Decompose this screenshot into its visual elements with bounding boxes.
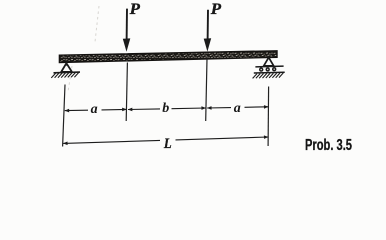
dimension line a (left) — [65, 109, 127, 110]
roller support hatching — [253, 73, 284, 79]
dimension line b — [128, 108, 206, 110]
svg-text:b: b — [162, 101, 169, 116]
beam — [59, 51, 277, 63]
faint scan crease artifact — [68, 6, 99, 92]
pin support (left) — [54, 63, 81, 73]
paper background — [0, 0, 386, 164]
svg-text:a: a — [91, 102, 98, 117]
dimension line L — [63, 137, 268, 143]
svg-text:P: P — [210, 1, 222, 18]
dimension line a (right) — [207, 107, 268, 108]
extension line right — [267, 87, 270, 147]
svg-text:Prob. 3.5: Prob. 3.5 — [305, 137, 352, 154]
svg-text:a: a — [234, 101, 241, 116]
svg-text:P: P — [129, 1, 141, 18]
roller support (right) — [254, 57, 285, 73]
extension line at right load — [206, 59, 207, 122]
svg-text:L: L — [163, 136, 172, 152]
extension line at left load — [126, 63, 127, 122]
pin support hatching — [51, 73, 78, 78]
extension line left — [63, 85, 65, 147]
load arrow P2 — [204, 10, 212, 52]
load arrow P1 — [123, 9, 131, 52]
